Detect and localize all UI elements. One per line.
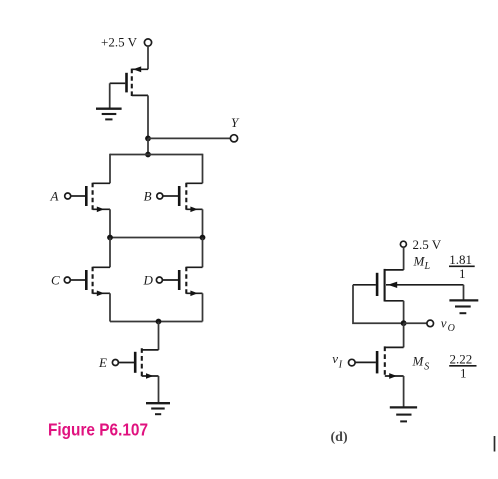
- wire node Y to output terminal: [148, 137, 231, 139]
- source arrow: [133, 66, 141, 72]
- ratio 1.81/1: [449, 252, 475, 281]
- nmos transistor D: [143, 267, 203, 296]
- svg-text:2.5 V: 2.5 V: [413, 237, 442, 252]
- svg-text:E: E: [98, 355, 107, 370]
- gate bar: [125, 73, 128, 93]
- svg-text:A: A: [50, 188, 59, 203]
- junction top rail: [145, 152, 151, 158]
- ground (ML body): [449, 300, 478, 313]
- wire left branch upper: [109, 154, 111, 184]
- input terminal vI: [332, 351, 355, 371]
- node vO junction: [401, 320, 407, 326]
- supply terminal 2.5 V: [400, 237, 441, 252]
- wire node vO to terminal: [404, 322, 427, 324]
- ground (M0 gate): [96, 109, 122, 120]
- supply terminal +2.5 V: [101, 35, 152, 50]
- svg-text:D: D: [143, 272, 154, 287]
- junction middle right: [200, 235, 206, 241]
- node Y junction: [145, 136, 151, 142]
- wire left branch C lower: [109, 293, 111, 321]
- svg-text:O: O: [448, 323, 455, 334]
- wire ML gate to node vO: [353, 285, 404, 323]
- drain lead: [132, 94, 148, 96]
- svg-text:Y: Y: [231, 115, 240, 130]
- ground (E source): [146, 403, 170, 414]
- wire MS source to ground: [403, 376, 405, 407]
- svg-text:1.81: 1.81: [449, 252, 472, 267]
- svg-text:2.22: 2.22: [450, 351, 473, 366]
- middle rail: [110, 237, 203, 239]
- wire right branch D upper: [202, 238, 204, 268]
- pmos load transistor M0: [110, 66, 148, 96]
- svg-text:C: C: [51, 272, 60, 287]
- wire rail to E drain: [158, 322, 160, 350]
- depletion load transistor ML: [353, 269, 464, 302]
- ground (MS source): [390, 407, 417, 421]
- wire M0 drain to node Y: [147, 95, 149, 138]
- svg-text:S: S: [424, 362, 429, 373]
- svg-text:M: M: [412, 354, 425, 369]
- wire left branch lower: [109, 209, 111, 237]
- nmos transistor MS: [355, 346, 404, 379]
- wire E source to ground: [158, 376, 160, 403]
- svg-text:Figure P6.107: Figure P6.107: [48, 420, 148, 440]
- nmos transistor E: [98, 348, 159, 379]
- nmos transistor C: [51, 267, 110, 296]
- output terminal Y: [230, 115, 240, 142]
- svg-text:v: v: [332, 351, 338, 366]
- label MS: [412, 354, 430, 373]
- body lead with arrow: [386, 284, 464, 286]
- wire ML source to node vO: [403, 301, 405, 323]
- nmos transistor B: [144, 183, 203, 212]
- page edge mark: [494, 436, 496, 452]
- svg-text:L: L: [424, 261, 431, 272]
- wire right branch lower: [202, 209, 204, 237]
- svg-text:1: 1: [460, 366, 467, 381]
- wire left branch C upper: [109, 238, 111, 268]
- wire right branch upper: [202, 154, 204, 184]
- svg-text:I: I: [338, 360, 343, 371]
- wire supply to ML drain: [403, 247, 405, 270]
- output terminal vO: [427, 315, 455, 334]
- svg-text:(d): (d): [331, 430, 348, 445]
- svg-text:v: v: [441, 315, 447, 330]
- ratio 2.22/1: [449, 351, 476, 380]
- channel: [131, 69, 133, 96]
- wire node vO to MS drain: [403, 323, 405, 347]
- wire ML body to ground: [463, 285, 465, 301]
- wire node Y to PDN: [147, 138, 149, 154]
- bottom rail: [110, 321, 203, 323]
- label ML: [413, 253, 431, 272]
- nmos transistor A: [50, 183, 111, 212]
- source lead: [132, 68, 148, 70]
- svg-text:B: B: [144, 188, 152, 203]
- wire supply to M0 source: [147, 46, 149, 69]
- top rail: [110, 154, 203, 156]
- junction bottom rail: [156, 319, 162, 325]
- svg-text:1: 1: [459, 266, 466, 281]
- svg-text:+2.5 V: +2.5 V: [101, 35, 138, 50]
- junction middle left: [107, 235, 113, 241]
- wire right branch D lower: [202, 293, 204, 321]
- gate lead: [110, 82, 126, 84]
- wire gate to ground: [109, 83, 111, 108]
